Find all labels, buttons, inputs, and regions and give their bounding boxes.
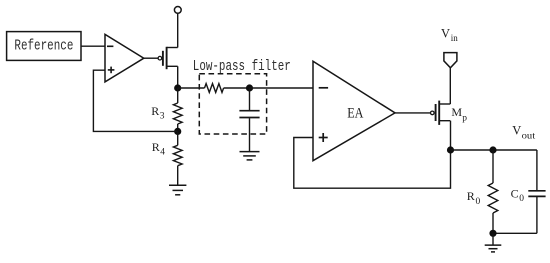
- resistor LPF (series): [205, 84, 224, 93]
- svg-text:0: 0: [476, 197, 481, 207]
- svg-text:R: R: [151, 104, 159, 118]
- wire node A to LPF resistor: [178, 87, 205, 89]
- svg-text:out: out: [522, 131, 536, 141]
- wire M1 drain down to node A: [177, 66, 179, 88]
- capacitor C0: [493, 150, 546, 233]
- wire Mp drain down to node D: [450, 121, 452, 150]
- svg-text:0: 0: [519, 194, 524, 204]
- wire Reference to op-amp U1 inverting input: [81, 45, 106, 47]
- svg-text:V: V: [441, 26, 450, 40]
- ground (R4): [169, 185, 186, 195]
- node D (Mp drain / output rail): [447, 146, 454, 153]
- wire node B to EA inverting input: [250, 87, 314, 89]
- svg-text:Low-pass filter: Low-pass filter: [193, 58, 291, 75]
- dashed box Low-pass filter: [199, 74, 266, 134]
- wire to node B: [224, 87, 250, 89]
- Reference block: [7, 32, 81, 61]
- transistor Mp (PMOS): [431, 101, 451, 125]
- svg-text:R: R: [467, 189, 475, 203]
- svg-text:V: V: [512, 123, 521, 137]
- node E (R0 top): [489, 146, 496, 153]
- svg-text:C: C: [511, 186, 519, 200]
- op-amp EA: [313, 61, 395, 161]
- svg-text:4: 4: [160, 148, 165, 158]
- resistor R4: [173, 131, 182, 185]
- wire output rail: [451, 149, 537, 151]
- svg-text:3: 3: [160, 112, 165, 122]
- node A (M1 drain / R3 top / LPF input): [174, 84, 181, 91]
- op-amp U1: [105, 34, 144, 82]
- wire U1 output to M1 gate: [144, 57, 158, 59]
- svg-text:Reference: Reference: [14, 38, 73, 55]
- wire Mp source up to Vin supply: [449, 68, 451, 104]
- wire feedback divider to U1 non-inverting input: [93, 70, 177, 131]
- svg-text:p: p: [462, 113, 467, 123]
- resistor R3: [173, 88, 182, 131]
- svg-text:in: in: [451, 33, 459, 43]
- ground (LPF cap): [240, 152, 260, 160]
- svg-text:M: M: [451, 105, 462, 119]
- svg-text:EA: EA: [347, 105, 364, 121]
- node B (LPF cap top): [246, 84, 253, 91]
- resistor R0: [488, 150, 498, 233]
- wire EA feedback (Vout to non-inverting input): [294, 138, 451, 189]
- supply terminal (circle): [174, 6, 181, 47]
- svg-text:R: R: [152, 140, 160, 154]
- transistor M1 (PMOS): [158, 47, 178, 69]
- wire EA output to Mp gate: [395, 112, 431, 114]
- node F (R0/C0 bottom): [489, 230, 496, 237]
- supply symbol Vin (pentagon): [444, 53, 457, 68]
- ground (output): [485, 233, 502, 252]
- node C (R3/R4 divider): [174, 128, 181, 135]
- capacitor LPF: [239, 88, 259, 151]
